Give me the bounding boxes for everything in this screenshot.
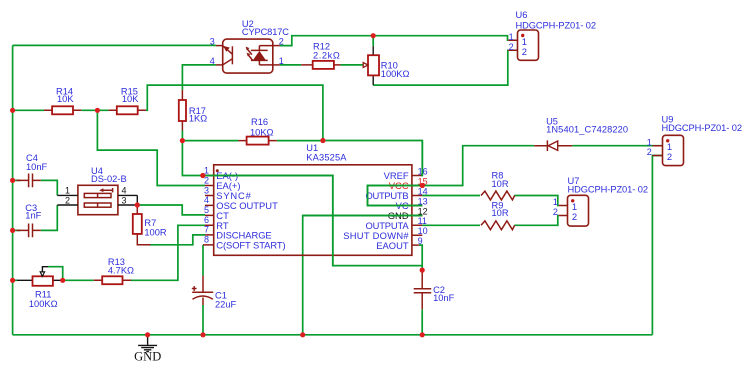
svg-text:4: 4 [204,195,209,205]
svg-text:1: 1 [647,137,652,147]
wire R14 to R15 [81,109,108,111]
wire R10 bottom to U6 pin2 [373,50,508,85]
wire R16 to junction [277,140,323,142]
svg-text:2: 2 [509,42,514,52]
svg-text:3: 3 [122,195,127,205]
svg-text:R16: R16 [251,117,268,127]
op-amp U2 optocoupler CYPC817C [210,19,289,73]
wire R14 row from rail [13,109,44,111]
wire VCC to diode U5 [422,146,534,186]
resistor R9 [481,200,515,229]
node U1 pin1 [200,173,205,178]
ground [134,335,161,364]
wire EA+ from R14/R15 junction to U1 pin2 [97,110,205,185]
resistor R15 [109,86,146,114]
wire GND overlay redraw on top [303,215,423,217]
wire R11 left to rail [13,279,17,281]
wire R9 to U7 pin2 [514,216,558,226]
wire R17 junction down to U1 pin1 [182,141,205,176]
wire R17 bottom to junction [181,131,183,141]
svg-text:C(SOFT START): C(SOFT START) [216,240,285,251]
svg-text:KA3525A: KA3525A [306,152,347,162]
wire C3 right to U4 pin2 [41,205,58,230]
svg-text:10R: 10R [492,179,509,189]
svg-text:100R: 100R [144,227,167,237]
node R16-VREF [320,138,325,143]
wire junction to U1 pin16 VREF [323,141,422,176]
svg-text:7: 7 [204,225,209,235]
wire left rail [12,45,14,334]
wire U1 pin11 OUTPUTA to R9 [422,224,480,226]
svg-text:10R: 10R [492,208,509,218]
U2 pin 2 stub [273,45,280,47]
diode U5 1N5401 [534,116,628,151]
svg-text:2: 2 [647,147,652,157]
wire R13 to R11 junction [63,279,94,281]
U4 pin 4 [118,194,137,196]
IC U1 KA3525A [203,143,428,255]
svg-text:DS-02-B: DS-02-B [91,174,127,184]
U4 pin 3 [118,195,137,205]
svg-text:HDGCPH-PZ01- 02: HDGCPH-PZ01- 02 [662,123,743,133]
svg-text:1: 1 [65,186,70,196]
node R10 top [371,33,376,38]
wire C1 bottom to rail [202,305,204,335]
wire U2 pin2 to U6 pin1 [280,36,508,46]
resistor R13 [94,257,134,284]
svg-text:HDGCPH-PZ01- 02: HDGCPH-PZ01- 02 [568,184,649,194]
wire C4 right to U4 pin1 [41,180,58,195]
wire diode to U9 pin1 [572,145,662,147]
svg-text:R11: R11 [35,290,51,300]
svg-text:3: 3 [210,37,215,47]
node rail-R11 [10,278,15,283]
switch U4 DS-02-B [57,166,137,215]
svg-text:1KΩ: 1KΩ [189,113,207,123]
svg-text:5: 5 [204,205,209,215]
capacitor C3 [17,203,42,237]
wire VREF drop redraw on top [421,141,423,176]
svg-text:10nF: 10nF [433,293,455,303]
node R17-R16-EA- [180,138,185,143]
svg-text:1: 1 [553,197,558,207]
svg-text:22uF: 22uF [215,300,237,310]
node R11-R13 [60,278,65,283]
wire U1 pin12 GND overlay to rail [303,216,423,335]
svg-text:10K: 10K [57,94,74,104]
wire U1 pin9 EAOUT down to C2 [419,245,422,270]
node U4 pin3-R7 [135,202,140,207]
svg-text:1: 1 [509,32,514,42]
wire U4 pin3 junction to U1 pin5 CT [137,205,205,215]
wire right rail up to U9 pin2 [652,156,662,335]
svg-text:2: 2 [522,46,527,57]
U2 phototransistor [231,46,233,64]
potentiometer R10 [363,46,409,85]
resistor R16 [238,117,276,144]
wire bottom ground rail [13,334,653,336]
wire VCC-VC loop redraw on top [368,186,423,206]
connector U7 HDGCPH-PZ01-02 [553,176,648,226]
capacitor C4 [17,153,48,187]
U2 pin 4 stub [216,64,223,66]
svg-text:HDGCPH-PZ01- 02: HDGCPH-PZ01- 02 [516,20,597,30]
svg-text:EAOUT: EAOUT [376,240,409,251]
svg-text:10nF: 10nF [26,162,48,172]
wire U2 pin1 to R12 [280,64,301,66]
connector U6 HDGCPH-PZ01-02 [508,10,596,60]
svg-text:3: 3 [204,185,209,195]
node C2 bottom [420,332,425,337]
U1 right pin stubs 16-9 [412,176,422,246]
node rail-R14 [10,108,15,113]
svg-text:2.2kΩ: 2.2kΩ [313,50,340,60]
wire R11 wiper loop [48,267,63,281]
svg-text:CYPC817C: CYPC817C [242,27,289,37]
U2 pin 3 stub [216,45,223,47]
U4 switch bars [84,193,111,197]
node R14-R15-EA+ [95,108,100,113]
potentiometer R11 [17,267,63,309]
svg-text:100KΩ: 100KΩ [29,299,58,309]
svg-text:2: 2 [279,37,284,47]
node GND rail [145,332,150,337]
resistor R12 [301,41,340,69]
wire VCC to VC loop overlay [368,186,423,206]
svg-text:2: 2 [65,195,70,205]
U2 pin 1 stub [273,64,280,66]
wire R8 to U7 pin1 [514,196,558,206]
svg-text:10K: 10K [122,94,139,104]
svg-text:1N5401_C7428220: 1N5401_C7428220 [546,124,628,134]
node C2 top [420,268,425,273]
wire R17 junction to R16 [182,140,238,142]
wire U2 pin4 to R17 top [182,65,216,90]
wire top left horizontal to U2 pin3 [13,44,216,46]
wire C3 left [13,229,21,231]
node C1 bottom [200,332,205,337]
svg-text:4: 4 [210,56,215,66]
node GND wire rail [300,332,305,337]
svg-text:1nF: 1nF [25,211,41,221]
wire U1 pin14 OUTPUTB to R8 [422,195,480,197]
wire EA- overlay from pin1 to EAOUT net [203,176,422,266]
resistor R14 [44,86,81,114]
U2 light arrows [247,49,252,55]
svg-text:100KΩ: 100KΩ [381,69,410,79]
svg-text:9: 9 [418,236,423,246]
resistor R8 [481,171,515,200]
svg-text:6: 6 [204,215,209,225]
node rail-C3 [10,228,15,233]
svg-text:2: 2 [667,151,672,162]
U4 pin 1 [57,194,78,196]
svg-text:10KΩ: 10KΩ [250,128,274,138]
resistor R17 [179,90,207,131]
svg-text:4: 4 [122,185,127,195]
wire U1 pin8 down to C1 [202,245,204,276]
resistor R7 [133,205,167,245]
connector U9 HDGCPH-PZ01-02 [647,114,742,165]
svg-text:4.7KΩ: 4.7KΩ [108,266,134,276]
svg-text:11: 11 [418,216,427,226]
wire C2 bottom to rail [421,309,423,335]
U4 slide mark [102,188,113,192]
wire R15 right up and across to VREF junction [146,85,323,140]
svg-text:8: 8 [204,235,209,245]
U1 left pin stubs 1-8 [203,176,214,245]
svg-text:1: 1 [279,56,284,66]
wire R12 to R10 wiper [340,64,363,66]
svg-text:U6: U6 [516,10,528,20]
svg-text:10: 10 [418,226,428,236]
svg-text:GND: GND [134,350,161,364]
wire C4 left [13,179,21,181]
wire R10 top to junction [372,36,374,47]
U4 pin 2 [57,204,78,206]
capacitor C1 polarized [192,276,237,310]
wire EA- overlay redraw on top [203,176,422,266]
capacitor C2 [414,270,455,309]
node VCC pin15 [420,183,425,188]
node rail-C4 [10,178,15,183]
wire U1 pin7 DISCHARGE to R7 bottom [150,235,206,245]
wire U1 pin6 RT to R13 [131,225,205,280]
U2 LED [251,49,268,51]
svg-text:2: 2 [572,211,577,222]
svg-text:2: 2 [553,207,558,217]
